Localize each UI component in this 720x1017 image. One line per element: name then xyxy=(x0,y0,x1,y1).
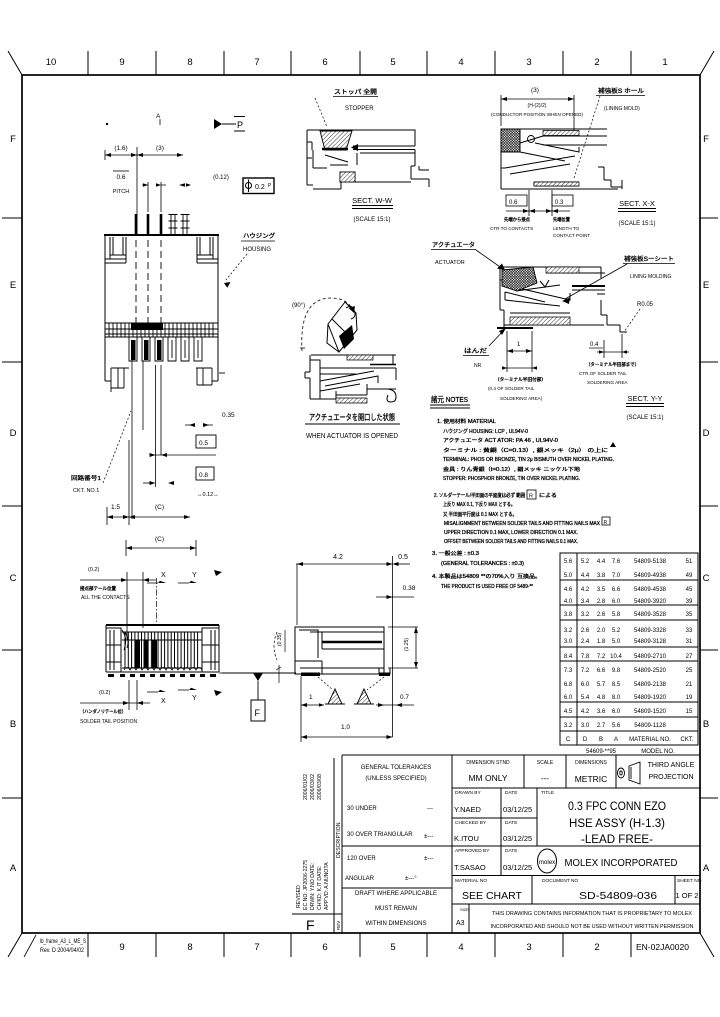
feature control frame 0.2 xyxy=(243,178,274,194)
svg-text:54809-2710: 54809-2710 xyxy=(634,654,667,660)
svg-text:SECT. W-W: SECT. W-W xyxy=(352,196,393,205)
datum R flag xyxy=(219,672,282,674)
svg-text:(GENERAL TOLERANCES : ±0.3): (GENERAL TOLERANCES : ±0.3) xyxy=(441,561,524,567)
svg-text:1.5: 1.5 xyxy=(111,504,120,511)
svg-text:5: 5 xyxy=(390,57,395,68)
svg-text:0.3: 0.3 xyxy=(555,200,564,206)
svg-text:54809-3128: 54809-3128 xyxy=(634,639,667,645)
svg-text:F: F xyxy=(703,134,709,145)
svg-text:54809-3328: 54809-3328 xyxy=(634,628,667,634)
svg-text:8: 8 xyxy=(187,57,192,68)
svg-text:(CONDUCTOR POSITION WHEN OPENE: (CONDUCTOR POSITION WHEN OPENED) xyxy=(491,112,584,117)
section cut line X xyxy=(156,578,158,625)
svg-text:---: --- xyxy=(427,806,433,812)
svg-text:4. 本製品は54809 **の70%入り 互換品。: 4. 本製品は54809 **の70%入り 互換品。 xyxy=(432,573,541,580)
svg-text:45: 45 xyxy=(686,587,693,593)
svg-text:A: A xyxy=(703,863,710,874)
svg-text:6.8: 6.8 xyxy=(564,682,573,688)
svg-text:A: A xyxy=(10,863,17,874)
svg-text:CKT.: CKT. xyxy=(680,737,693,743)
svg-text:REV: REV xyxy=(336,921,341,930)
section W-W body xyxy=(307,130,429,189)
svg-text:54809-5138: 54809-5138 xyxy=(634,559,667,565)
svg-text:HOUSING: HOUSING xyxy=(243,247,271,253)
svg-text:1. 使用材料 MATERIAL: 1. 使用材料 MATERIAL xyxy=(437,418,496,425)
svg-text:C: C xyxy=(703,573,710,584)
left end block xyxy=(106,628,121,672)
body xyxy=(500,267,627,332)
svg-text:THIS DRAWING CONTAINS INFORMAT: THIS DRAWING CONTAINS INFORMATION THAT I… xyxy=(492,911,692,917)
svg-text:R: R xyxy=(604,520,608,526)
svg-text:2: 2 xyxy=(594,942,599,953)
svg-text:TITLE: TITLE xyxy=(541,790,554,796)
svg-text:CTR.OF SOLDER TAIL: CTR.OF SOLDER TAIL xyxy=(579,371,627,376)
svg-text:SOLDERING AREA): SOLDERING AREA) xyxy=(500,396,543,401)
svg-text:54809-4938: 54809-4938 xyxy=(634,573,667,579)
svg-text:INCORPORATED AND SHOULD NOT BE: INCORPORATED AND SHOULD NOT BE USED WITH… xyxy=(491,924,694,930)
svg-text:03/12/25: 03/12/25 xyxy=(503,805,532,814)
svg-text:molex: molex xyxy=(539,859,556,866)
housing callout xyxy=(224,232,275,288)
FPC thick lines xyxy=(572,285,605,287)
hatched strips xyxy=(347,355,373,360)
svg-text:2.6: 2.6 xyxy=(581,628,590,634)
svg-text:NR: NR xyxy=(474,363,482,369)
5 solder tails (top view) xyxy=(135,214,190,235)
reinforcement callout xyxy=(574,87,645,178)
svg-text:2.0: 2.0 xyxy=(597,628,606,634)
svg-text:SIZE: SIZE xyxy=(460,907,469,912)
svg-text:A: A xyxy=(614,737,618,743)
svg-text:2.4: 2.4 xyxy=(581,639,590,645)
svg-text:31: 31 xyxy=(686,639,693,645)
svg-text:DIMENSION STND: DIMENSION STND xyxy=(466,760,510,766)
svg-text:APP'VD: A.NUNOTA: APP'VD: A.NUNOTA xyxy=(324,862,330,910)
svg-text:SOLDERING AREA: SOLDERING AREA xyxy=(587,380,629,385)
svg-text:7.8: 7.8 xyxy=(581,654,590,660)
svg-text:（ターミナル半田部まで）: （ターミナル半田部まで） xyxy=(586,361,639,368)
svg-text:C: C xyxy=(10,573,17,584)
sheet frame id text xyxy=(40,938,86,954)
svg-text:2006/03/02: 2006/03/02 xyxy=(310,774,316,800)
svg-text:25: 25 xyxy=(686,668,693,674)
svg-text:8.5: 8.5 xyxy=(612,682,621,688)
svg-text:0.4: 0.4 xyxy=(590,342,599,348)
svg-text:HSE ASSY (H-1.3): HSE ASSY (H-1.3) xyxy=(569,818,665,830)
svg-text:↔0.12↔: ↔0.12↔ xyxy=(197,492,219,498)
housing body (top view) xyxy=(104,235,219,381)
dark contacts xyxy=(135,640,140,668)
svg-text:DATE: DATE xyxy=(505,848,517,854)
svg-text:54809-1128: 54809-1128 xyxy=(634,723,666,729)
svg-text:2.8: 2.8 xyxy=(597,599,606,605)
boxed R datum in note 2 xyxy=(527,490,536,499)
svg-text:7.6: 7.6 xyxy=(612,559,621,565)
svg-text:7.3: 7.3 xyxy=(564,668,573,674)
svg-text:E: E xyxy=(703,280,709,291)
svg-text:アクチュエータを開口した状態: アクチュエータを開口した状態 xyxy=(309,412,395,422)
svg-text:C: C xyxy=(566,737,571,743)
proprietary note xyxy=(491,911,694,930)
svg-text:3.4: 3.4 xyxy=(581,599,590,605)
svg-text:DATE: DATE xyxy=(505,790,517,796)
stopper hatched xyxy=(320,131,352,150)
svg-text:SECT. Y-Y: SECT. Y-Y xyxy=(627,394,662,403)
svg-text:PITCH: PITCH xyxy=(113,189,130,195)
svg-text:F: F xyxy=(255,708,261,718)
svg-text:B: B xyxy=(703,719,709,730)
notes heading xyxy=(430,394,470,408)
svg-text:4: 4 xyxy=(458,57,463,68)
svg-text:120 OVER: 120 OVER xyxy=(347,856,376,862)
svg-text:4.0: 4.0 xyxy=(564,599,573,605)
drawing title xyxy=(568,801,666,846)
svg-text:DATE: DATE xyxy=(505,820,517,826)
svg-text:5.8: 5.8 xyxy=(612,612,621,618)
svg-text:接点部テール位置: 接点部テール位置 xyxy=(80,585,116,592)
svg-text:CKT. NO.1: CKT. NO.1 xyxy=(73,488,99,494)
svg-text:54809-1920: 54809-1920 xyxy=(634,695,667,701)
svg-text:CONTACT POINT: CONTACT POINT xyxy=(553,233,590,238)
molex logo xyxy=(538,849,557,873)
svg-text:LINING MOLDING: LINING MOLDING xyxy=(630,274,672,280)
svg-text:MM ONLY: MM ONLY xyxy=(468,773,507,783)
actuator callout xyxy=(431,241,505,270)
svg-text:DESCRIPTION: DESCRIPTION xyxy=(336,822,342,858)
svg-text:54809-3528: 54809-3528 xyxy=(634,612,667,618)
svg-text:上反り MAX 0.1, 下反り MAX とする。: 上反り MAX 0.1, 下反り MAX とする。 xyxy=(443,501,515,508)
svg-text:54809-3920: 54809-3920 xyxy=(634,599,667,605)
svg-text:LENGTH TO: LENGTH TO xyxy=(553,226,580,231)
svg-text:WITHIN DIMENSIONS: WITHIN DIMENSIONS xyxy=(366,921,427,927)
svg-text:5.0: 5.0 xyxy=(564,573,573,579)
svg-text:54809-2138: 54809-2138 xyxy=(634,682,667,688)
svg-text:4.4: 4.4 xyxy=(597,559,606,565)
svg-text:2006/03/08: 2006/03/08 xyxy=(317,774,323,800)
svg-text:10.4: 10.4 xyxy=(610,654,622,660)
revision block vertical text xyxy=(296,774,342,930)
dims below xyxy=(506,190,570,216)
svg-text:(0.4 OF SOLDER TAIL: (0.4 OF SOLDER TAIL xyxy=(488,386,535,391)
svg-text:D: D xyxy=(10,428,17,439)
svg-text:THIRD ANGLE: THIRD ANGLE xyxy=(648,762,695,769)
svg-text:(3): (3) xyxy=(156,145,164,152)
svg-text:49: 49 xyxy=(686,573,693,579)
svg-text:SECT. X-X: SECT. X-X xyxy=(619,199,655,208)
svg-text:ハウジング: ハウジング xyxy=(243,232,275,240)
svg-text:OFFSET BETWEEN SOLDER TAILS AN: OFFSET BETWEEN SOLDER TAILS AND FITTING … xyxy=(444,539,578,545)
svg-text:---: --- xyxy=(541,774,549,783)
svg-text:Y.NAED: Y.NAED xyxy=(454,805,482,814)
svg-text:(90°): (90°) xyxy=(292,303,305,309)
svg-text:lb_frame_A3_L_ME_S: lb_frame_A3_L_ME_S xyxy=(40,938,86,945)
svg-text:T.SASAO: T.SASAO xyxy=(454,863,486,872)
svg-text:3.2: 3.2 xyxy=(564,628,573,634)
svg-text:4.2: 4.2 xyxy=(333,554,343,561)
bottom corner details xyxy=(105,368,225,392)
svg-text:3. 一般公差 : ±0.3: 3. 一般公差 : ±0.3 xyxy=(432,550,479,557)
svg-text:回路番号1: 回路番号1 xyxy=(71,474,101,482)
svg-text:アクチュエータ ACT ATOR: PA 46 , UL9: アクチュエータ ACT ATOR: PA 46 , UL94V-0 xyxy=(443,437,558,444)
svg-text:54809-1520: 54809-1520 xyxy=(634,709,667,715)
svg-text:54609-**95: 54609-**95 xyxy=(586,749,617,755)
svg-text:6.0: 6.0 xyxy=(612,599,621,605)
svg-text:0.5: 0.5 xyxy=(398,554,408,561)
svg-text:はんだ: はんだ xyxy=(464,348,487,355)
svg-text:35: 35 xyxy=(686,612,693,618)
svg-text:DRWN: Y.NO DATE:: DRWN: Y.NO DATE: xyxy=(310,863,316,910)
svg-text:諸元 NOTES: 諸元 NOTES xyxy=(431,394,468,404)
svg-text:0.38: 0.38 xyxy=(403,585,416,592)
svg-text:金具 : りん青銀（t=0.12）, 錯メッキ ニッケル下: 金具 : りん青銀（t=0.12）, 錯メッキ ニッケル下地 xyxy=(443,466,580,473)
svg-text:SCALE: SCALE xyxy=(537,760,554,766)
svg-text:補強板S ホール: 補強板S ホール xyxy=(598,87,644,95)
tolerance block xyxy=(345,765,437,927)
svg-text:5: 5 xyxy=(390,942,395,953)
svg-text:±---: ±--- xyxy=(424,856,433,862)
svg-text:B: B xyxy=(599,737,603,743)
svg-text:6.0: 6.0 xyxy=(581,682,590,688)
svg-text:3.2: 3.2 xyxy=(564,723,573,729)
svg-text:0.3 FPC CONN EZO: 0.3 FPC CONN EZO xyxy=(568,801,666,813)
svg-text:(C): (C) xyxy=(155,504,164,511)
pcb line to the left xyxy=(222,672,296,674)
svg-text:R: R xyxy=(529,494,533,500)
svg-text:アクチュエータ: アクチュエータ xyxy=(432,241,475,249)
svg-text:7.2: 7.2 xyxy=(581,668,590,674)
dim 1 below xyxy=(502,331,537,372)
svg-text:3.0: 3.0 xyxy=(581,723,590,729)
svg-text:3.0: 3.0 xyxy=(564,639,573,645)
right fitting nail xyxy=(197,237,213,259)
svg-text:MOLEX INCORPORATED: MOLEX INCORPORATED xyxy=(565,857,678,869)
svg-text:CH'KD: K.IT DATE:: CH'KD: K.IT DATE: xyxy=(317,866,323,910)
svg-text:7.0: 7.0 xyxy=(612,573,621,579)
svg-text:0.7: 0.7 xyxy=(400,694,409,701)
svg-text:SEE CHART: SEE CHART xyxy=(462,890,522,902)
svg-text:51: 51 xyxy=(686,559,693,565)
svg-text:（ハンダノリテール位）: （ハンダノリテール位） xyxy=(80,708,126,715)
svg-text:F: F xyxy=(10,134,16,145)
svg-text:7.2: 7.2 xyxy=(597,654,606,660)
svg-text:APPROVED BY: APPROVED BY xyxy=(455,848,490,854)
svg-text:(H-(2)/2): (H-(2)/2) xyxy=(528,103,547,109)
svg-text:DRAFT WHERE APPLICABLE: DRAFT WHERE APPLICABLE xyxy=(355,891,437,897)
svg-text:WHEN ACTUATOR IS OPENED: WHEN ACTUATOR IS OPENED xyxy=(306,431,398,440)
svg-text:D: D xyxy=(703,428,710,439)
svg-text:F: F xyxy=(306,917,315,933)
reinforcement callout xyxy=(562,255,675,304)
svg-text:2006/01/02: 2006/01/02 xyxy=(303,774,309,800)
svg-text:Y: Y xyxy=(192,572,197,579)
hidden contact lines (dashed) xyxy=(136,240,161,330)
svg-text:0.5: 0.5 xyxy=(199,440,208,447)
svg-text:(UNLESS SPECIFIED): (UNLESS SPECIFIED) xyxy=(365,776,426,782)
svg-text:54809-2520: 54809-2520 xyxy=(634,668,667,674)
svg-text:1: 1 xyxy=(662,57,667,68)
svg-text:5.2: 5.2 xyxy=(581,559,590,565)
svg-text:Y: Y xyxy=(192,695,197,702)
svg-text:MATERIAL NO: MATERIAL NO xyxy=(455,878,487,884)
right vertical dim xyxy=(388,627,418,668)
FPC lines xyxy=(370,364,396,366)
left fitting nail xyxy=(110,237,126,259)
svg-text:9: 9 xyxy=(119,942,124,953)
datum triangles with hatch xyxy=(325,689,374,704)
stopper callout xyxy=(315,88,378,127)
svg-text:(SCALE 15:1): (SCALE 15:1) xyxy=(353,217,390,223)
svg-text:5.6: 5.6 xyxy=(612,723,621,729)
svg-text:7: 7 xyxy=(254,57,259,68)
notes text xyxy=(432,418,614,590)
svg-text:3.5: 3.5 xyxy=(597,587,606,593)
svg-text:GENERAL TOLERANCES: GENERAL TOLERANCES xyxy=(361,765,432,771)
flipped actuator xyxy=(327,302,357,352)
svg-text:0.8: 0.8 xyxy=(199,472,208,479)
svg-text:6: 6 xyxy=(322,942,327,953)
third angle projection symbol xyxy=(618,762,641,784)
svg-text:(1.6): (1.6) xyxy=(114,145,127,152)
svg-text:A: A xyxy=(156,113,161,120)
actuator curl hint xyxy=(122,630,128,650)
dims 1 / 0.7 / 1.0 xyxy=(301,676,414,742)
svg-text:3: 3 xyxy=(526,942,531,953)
hatched strips xyxy=(546,267,579,273)
solder feet xyxy=(108,674,216,677)
svg-text:P: P xyxy=(237,120,243,130)
svg-text:2: 2 xyxy=(594,57,599,68)
svg-text:ACTUATOR: ACTUATOR xyxy=(435,260,465,266)
svg-text:1 OF 2: 1 OF 2 xyxy=(676,891,699,900)
dim (1.6) and (3) xyxy=(105,147,183,236)
svg-text:4.5: 4.5 xyxy=(564,709,573,715)
small leader arc detail xyxy=(274,632,277,660)
svg-text:8: 8 xyxy=(187,942,192,953)
svg-text:(3): (3) xyxy=(531,87,539,94)
svg-text:2.7: 2.7 xyxy=(597,723,606,729)
svg-text:9.8: 9.8 xyxy=(612,668,621,674)
svg-text:0.6: 0.6 xyxy=(509,200,518,206)
front view body xyxy=(106,625,219,672)
terminal tails below band xyxy=(129,337,202,361)
svg-text:(SCALE 15:1): (SCALE 15:1) xyxy=(618,221,655,227)
svg-text:9: 9 xyxy=(119,57,124,68)
body xyxy=(501,129,622,189)
svg-text:03/12/25: 03/12/25 xyxy=(503,834,532,843)
solder callout xyxy=(463,328,506,369)
svg-text:CTR TO CONTACTS: CTR TO CONTACTS xyxy=(490,226,533,231)
svg-text:補強板Sーシート: 補強板Sーシート xyxy=(624,255,674,263)
svg-text:DRAWN BY: DRAWN BY xyxy=(455,790,481,796)
svg-text:(LINING MOLD): (LINING MOLD) xyxy=(604,106,640,112)
svg-text:MODEL NO.: MODEL NO. xyxy=(641,749,675,755)
svg-text:X: X xyxy=(161,698,166,705)
svg-text:30 UNDER: 30 UNDER xyxy=(347,806,377,812)
svg-text:3.8: 3.8 xyxy=(597,573,606,579)
svg-text:2. ソルダーテール/半田面の平面度は必ず 範囲: 2. ソルダーテール/半田面の平面度は必ず 範囲 xyxy=(434,492,525,499)
svg-text:6.6: 6.6 xyxy=(597,668,606,674)
svg-text:6: 6 xyxy=(322,57,327,68)
title block row 1 xyxy=(466,760,607,766)
small lower hatch xyxy=(340,172,355,182)
body xyxy=(305,355,396,402)
svg-text:THE PRODUCT IS USED FREE OF 54: THE PRODUCT IS USED FREE OF 5489-** xyxy=(441,584,533,590)
section markers top: X Y W xyxy=(161,572,197,579)
svg-text:19: 19 xyxy=(686,695,693,701)
svg-text:ALL THE CONTACTS: ALL THE CONTACTS xyxy=(81,595,130,601)
svg-text:先端位置: 先端位置 xyxy=(553,216,570,223)
svg-text:21: 21 xyxy=(686,682,693,688)
svg-text:4: 4 xyxy=(458,942,463,953)
svg-text:(0.2): (0.2) xyxy=(99,690,110,696)
right end block xyxy=(202,628,219,672)
svg-text:DIMENSIONS: DIMENSIONS xyxy=(575,760,607,766)
svg-text:TERMINAL: PHOS OR BRONZE, TIN: TERMINAL: PHOS OR BRONZE, TIN 2μ BISMUTH… xyxy=(443,457,614,463)
svg-text:SD-54809-036: SD-54809-036 xyxy=(579,890,657,902)
svg-text:1: 1 xyxy=(309,694,313,701)
centre contact band xyxy=(105,323,218,337)
svg-text:4.8: 4.8 xyxy=(597,695,606,701)
svg-text:ターミナル : 黄銅（C=0.13）, 銀メッキ（2μ）: ターミナル : 黄銅（C=0.13）, 銀メッキ（2μ） の上に xyxy=(443,447,608,454)
svg-text:3.8: 3.8 xyxy=(564,612,573,618)
svg-text:DOCUMENT NO: DOCUMENT NO xyxy=(542,878,578,884)
svg-text:1.0: 1.0 xyxy=(341,724,350,731)
svg-text:6.0: 6.0 xyxy=(564,695,573,701)
svg-text:K.ITOU: K.ITOU xyxy=(454,834,479,843)
lower dims of view A xyxy=(107,345,216,556)
svg-text:UPPER DIRECTION 0.1 MAX, LOWER: UPPER DIRECTION 0.1 MAX, LOWER DIRECTION… xyxy=(444,530,578,536)
svg-text:X: X xyxy=(161,572,166,579)
svg-text:4.6: 4.6 xyxy=(564,587,573,593)
svg-text:(0.2): (0.2) xyxy=(88,567,99,573)
svg-text:ストッパ 全開: ストッパ 全開 xyxy=(334,88,377,96)
svg-text:EC NO: JP2006-2275: EC NO: JP2006-2275 xyxy=(303,860,309,910)
svg-text:03/12/25: 03/12/25 xyxy=(503,863,532,872)
svg-text:10: 10 xyxy=(46,57,57,68)
svg-text:SHEET NO: SHEET NO xyxy=(677,878,702,884)
dim (3) xyxy=(501,95,574,133)
svg-text:Rev. D 2004/04/02: Rev. D 2004/04/02 xyxy=(40,947,84,954)
svg-text:33: 33 xyxy=(686,628,693,634)
svg-text:(1.25): (1.25) xyxy=(404,638,410,651)
svg-text:(SCALE 15:1): (SCALE 15:1) xyxy=(626,415,663,421)
svg-text:7: 7 xyxy=(254,942,259,953)
svg-text:8.0: 8.0 xyxy=(612,695,621,701)
svg-text:5.7: 5.7 xyxy=(597,682,606,688)
svg-text:2.6: 2.6 xyxy=(597,612,606,618)
svg-text:SOLDER TAIL POSITION: SOLDER TAIL POSITION xyxy=(80,719,138,725)
comb of contacts xyxy=(122,632,202,668)
svg-text:（ターミナル半田付部）: （ターミナル半田付部） xyxy=(495,376,546,383)
svg-text:R0.05: R0.05 xyxy=(637,302,654,308)
svg-text:MATERIAL NO.: MATERIAL NO. xyxy=(629,737,671,743)
svg-text:8.4: 8.4 xyxy=(564,654,573,660)
svg-text:15: 15 xyxy=(686,709,693,715)
svg-text:STOPPER: STOPPER xyxy=(345,106,374,112)
svg-text:4.2: 4.2 xyxy=(581,709,590,715)
svg-text:3.6: 3.6 xyxy=(597,709,606,715)
svg-text:REVISED: REVISED xyxy=(296,885,302,908)
svg-text:3.2: 3.2 xyxy=(581,612,590,618)
body of section xyxy=(295,627,390,674)
svg-text:D: D xyxy=(583,737,588,743)
svg-text:ハウジング HOUSING: LCP , UL94V-0: ハウジング HOUSING: LCP , UL94V-0 xyxy=(443,428,528,435)
svg-text:5.4: 5.4 xyxy=(581,695,590,701)
svg-text:PROJECTION: PROJECTION xyxy=(648,774,693,781)
svg-text:5.6: 5.6 xyxy=(564,559,573,565)
svg-text:(0.35): (0.35) xyxy=(277,633,283,646)
svg-text:EN-02JA0020: EN-02JA0020 xyxy=(636,942,689,952)
